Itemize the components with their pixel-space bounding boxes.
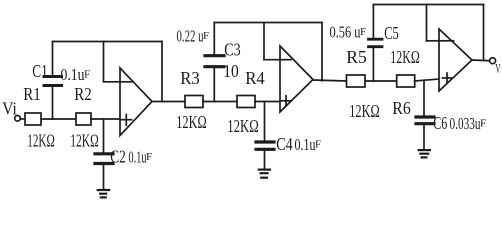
- svg-text:C6: C6: [433, 113, 447, 133]
- output terminal: [490, 58, 496, 64]
- svg-text:C2: C2: [110, 147, 126, 167]
- wire stage3 feedback top: [373, 4, 483, 6]
- capacitor C2: [95, 152, 113, 155]
- resistor R6: [397, 75, 415, 87]
- resistor R4: [237, 96, 255, 108]
- resistor R1: [25, 113, 41, 125]
- wire R6 to op-amp U3 plus input: [415, 79, 439, 81]
- wire R5 to R6 with node C: [365, 80, 397, 82]
- capacitor C3 lower lead: [213, 69, 215, 102]
- wire R2 to op-amp U1 plus input: [91, 118, 120, 120]
- svg-text:R1: R1: [23, 84, 41, 104]
- svg-text:0.1u: 0.1u: [129, 148, 147, 167]
- capacitor C5 upper lead: [372, 5, 374, 39]
- wire Vi to R1: [20, 118, 25, 120]
- capacitor C1 upper lead: [52, 42, 54, 76]
- svg-text:F: F: [84, 69, 90, 81]
- svg-text:F: F: [203, 30, 209, 42]
- op-amp U2: [280, 46, 313, 112]
- wire U2 output to R5: [313, 80, 347, 81]
- wire stage2 feedback top: [214, 22, 322, 24]
- resistor R3: [185, 96, 203, 108]
- svg-text:0.033u: 0.033u: [450, 114, 481, 133]
- capacitor C3: [205, 65, 224, 68]
- wire U1 output to R3: [152, 101, 185, 103]
- svg-text:F: F: [146, 151, 152, 163]
- svg-text:F: F: [315, 139, 321, 151]
- wire R4 to op-amp U2 plus input: [255, 101, 280, 103]
- op-amp U1 plus sign: [122, 119, 132, 121]
- capacitor C4 lower lead: [264, 152, 266, 169]
- svg-text:V: V: [495, 61, 501, 76]
- wire R3 to R4 with node B: [203, 101, 237, 103]
- wire R1 to R2 with node A: [41, 118, 76, 120]
- wire stage3 inverting input vertical: [426, 5, 428, 42]
- resistor R2: [76, 113, 91, 125]
- capacitor C5: [369, 45, 383, 48]
- svg-text:C5: C5: [384, 23, 399, 43]
- capacitor C6 lower lead: [423, 126, 425, 150]
- svg-text:R4: R4: [245, 68, 265, 88]
- svg-text:12KΩ: 12KΩ: [70, 131, 99, 151]
- capacitor C1: [44, 84, 62, 87]
- wire stage2 feedback vertical: [321, 23, 323, 81]
- svg-text:C1: C1: [32, 61, 48, 81]
- capacitor C2 lower lead: [103, 165, 105, 189]
- svg-text:12KΩ: 12KΩ: [176, 112, 207, 132]
- svg-text:12KΩ: 12KΩ: [349, 101, 380, 121]
- svg-text:F: F: [360, 26, 366, 38]
- wire stage2 inverting input vertical: [263, 23, 265, 60]
- wire stage3 inverting input stub: [427, 40, 440, 42]
- ground G3: [419, 149, 430, 151]
- svg-text:0.22 u: 0.22 u: [177, 27, 204, 46]
- input terminal Vi: [15, 116, 21, 122]
- op-amp U2 plus sign: [281, 100, 291, 102]
- capacitor C2 upper lead: [103, 119, 105, 152]
- capacitor C6: [416, 115, 434, 118]
- resistor R5: [347, 75, 366, 87]
- svg-text:12KΩ: 12KΩ: [27, 131, 55, 151]
- op-amp U2 minus sign: [281, 59, 291, 61]
- op-amp U3: [439, 29, 472, 91]
- wire stage1 inverting input stub: [104, 81, 121, 83]
- op-amp U3 plus sign: [443, 77, 452, 79]
- svg-text:C3: C3: [224, 40, 241, 60]
- wire stage1 feedback top: [53, 41, 163, 43]
- svg-text:R6: R6: [392, 98, 411, 118]
- svg-text:C4: C4: [276, 134, 293, 154]
- capacitor C6 upper lead: [423, 81, 425, 115]
- wire stage2 inverting input stub: [264, 59, 281, 61]
- wire stage1 inverting input vertical: [103, 42, 105, 82]
- capacitor C1 lower lead: [52, 87, 54, 119]
- svg-text:12KΩ: 12KΩ: [390, 47, 420, 67]
- ground G2: [259, 169, 270, 171]
- wire stage1 feedback vertical: [161, 42, 163, 102]
- capacitor C5 lower lead: [372, 48, 374, 81]
- op-amp U1 minus sign: [121, 81, 132, 83]
- svg-text:12KΩ: 12KΩ: [227, 116, 259, 136]
- svg-text:Vi: Vi: [2, 99, 17, 119]
- svg-text:10: 10: [223, 61, 239, 81]
- svg-text:0.1u: 0.1u: [295, 135, 316, 154]
- capacitor C3 upper lead: [213, 23, 215, 55]
- ground G1: [98, 189, 110, 191]
- wire U3 output: [472, 59, 490, 62]
- capacitor C4: [256, 140, 274, 143]
- wire stage3 feedback vertical: [483, 5, 485, 61]
- op-amp U3 minus sign: [440, 40, 454, 42]
- op-amp U1: [120, 68, 152, 136]
- svg-text:R3: R3: [180, 68, 200, 88]
- capacitor C4 upper lead: [264, 102, 266, 141]
- svg-text:F: F: [480, 118, 486, 130]
- svg-text:R2: R2: [74, 84, 92, 104]
- svg-text:0.56 u: 0.56 u: [330, 23, 361, 42]
- svg-text:0.1u: 0.1u: [61, 65, 85, 84]
- svg-text:R5: R5: [346, 47, 367, 67]
